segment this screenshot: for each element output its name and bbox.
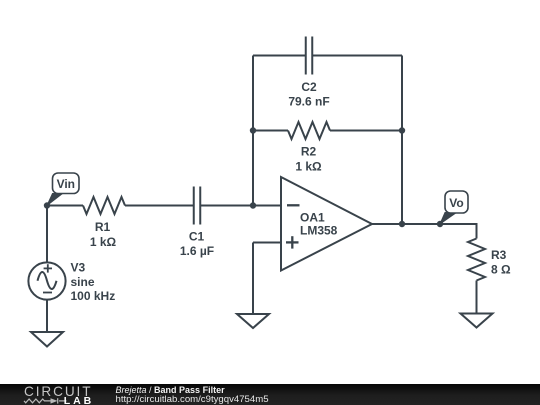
svg-text:LM358: LM358: [300, 224, 338, 238]
svg-text:Vin: Vin: [57, 177, 75, 191]
svg-text:V3: V3: [71, 261, 86, 275]
svg-text:79.6 nF: 79.6 nF: [288, 95, 329, 109]
svg-text:R3: R3: [491, 248, 507, 262]
svg-text:1 kΩ: 1 kΩ: [295, 160, 322, 174]
svg-text:100 kHz: 100 kHz: [71, 289, 116, 303]
svg-text:LAB: LAB: [64, 395, 94, 405]
svg-text:Vo: Vo: [449, 196, 463, 210]
svg-text:C1: C1: [189, 230, 205, 244]
svg-text:1.6 µF: 1.6 µF: [180, 244, 214, 258]
svg-text:1 kΩ: 1 kΩ: [90, 235, 117, 249]
svg-text:R2: R2: [301, 145, 317, 159]
svg-text:C2: C2: [301, 80, 317, 94]
svg-text:OA1: OA1: [300, 211, 325, 225]
svg-text:8 Ω: 8 Ω: [491, 263, 511, 277]
svg-text:R1: R1: [95, 220, 111, 234]
svg-text:sine: sine: [71, 275, 95, 289]
svg-text:http://circuitlab.com/c9tygqv4: http://circuitlab.com/c9tygqv4754m5: [116, 394, 269, 405]
